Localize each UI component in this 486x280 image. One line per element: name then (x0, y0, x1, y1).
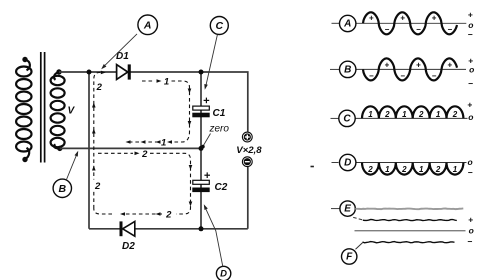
svg-text:−: − (432, 72, 437, 81)
small printed dash artifact (311, 166, 314, 168)
node label B (circled) with pointer arrow (53, 179, 71, 197)
svg-text:+: + (385, 60, 390, 69)
C2 plus polarity mark (204, 172, 210, 178)
wire C branch vertical (C1/C2 string) (200, 72, 202, 229)
svg-text:2: 2 (141, 149, 148, 160)
dashed current path loop 2 (charging C2 via D2) (94, 72, 101, 208)
svg-text:2: 2 (401, 165, 407, 174)
capacitor C2 (electrolytic) (192, 180, 209, 192)
svg-text:1: 1 (164, 77, 169, 88)
svg-text:−: − (468, 78, 473, 88)
svg-text:o: o (469, 64, 474, 74)
svg-text:1: 1 (402, 110, 407, 119)
waveform C: full-wave rectified humps (node C) numbered 1,2 (331, 117, 339, 119)
svg-text:1: 1 (161, 137, 166, 148)
diode D1 (117, 64, 131, 79)
svg-text:+: + (369, 13, 374, 22)
svg-text:C2: C2 (215, 182, 228, 193)
svg-text:2: 2 (452, 110, 458, 119)
svg-text:A: A (343, 19, 351, 30)
waveform D: negative rectified humps (node D) numbered 2,1 (332, 162, 339, 164)
wire bottom (D2 branch to output -) (89, 167, 248, 229)
svg-text:D: D (344, 158, 351, 169)
waveform E: smoothed DC output (top plate) with + level (331, 208, 340, 210)
svg-text:D: D (220, 269, 227, 280)
svg-text:C: C (216, 20, 224, 32)
svg-text:1: 1 (419, 165, 424, 174)
transformer primary winding (16, 60, 31, 160)
label zero with pointer (201, 124, 229, 149)
node D junction dot (C2 bottom) (199, 226, 204, 231)
svg-text:2: 2 (96, 82, 103, 93)
svg-text:1: 1 (385, 165, 390, 174)
svg-text:1: 1 (453, 165, 458, 174)
svg-text:zero: zero (209, 124, 230, 135)
dashed current path loop 1 (charging C1 via D1) (142, 80, 155, 82)
svg-text:F: F (346, 252, 353, 263)
waveform F: negative DC level with ripple (363, 242, 455, 243)
svg-text:V: V (68, 106, 76, 117)
svg-text:C1: C1 (213, 108, 226, 119)
svg-text:−: − (468, 168, 473, 178)
svg-text:+: + (468, 10, 473, 20)
svg-text:2: 2 (165, 210, 172, 221)
zero-node junction dot (C1-C2 midpoint) (199, 146, 204, 151)
svg-text:2: 2 (384, 110, 390, 119)
svg-text:o: o (469, 226, 474, 236)
svg-text:V×2,8: V×2,8 (236, 145, 262, 156)
svg-text:2: 2 (367, 165, 373, 174)
svg-text:2: 2 (94, 181, 101, 192)
svg-text:+: + (447, 60, 452, 69)
svg-text:−: − (468, 29, 473, 39)
svg-text:−: − (416, 25, 421, 34)
svg-text:+: + (432, 13, 437, 22)
svg-text:o: o (468, 112, 473, 122)
node label C (circled) with pointer arrow (210, 17, 228, 35)
svg-text:A: A (143, 19, 152, 31)
svg-text:1: 1 (436, 110, 441, 119)
waveform A: input sine at node A with +/- half-cycle labels (332, 22, 340, 24)
wire left (node A down to bottom wire) (88, 72, 90, 229)
node A junction dot (87, 70, 92, 75)
transformer core (41, 52, 45, 163)
wire middle (node B / zero to C1-C2 midpoint) (60, 147, 201, 149)
svg-text:+: + (416, 60, 421, 69)
svg-text:B: B (59, 183, 67, 195)
svg-text:B: B (344, 64, 351, 75)
svg-text:−: − (400, 72, 405, 81)
svg-text:1: 1 (368, 110, 373, 119)
node C junction dot (D1 cathode / C1 top) (199, 70, 204, 75)
svg-text:−: − (369, 72, 374, 81)
C1 plus polarity mark (204, 98, 210, 104)
svg-text:E: E (344, 204, 351, 215)
svg-text:C: C (343, 113, 351, 124)
output terminal + (positive) (242, 132, 252, 142)
svg-text:−: − (385, 25, 390, 34)
waveform B: inverted sine at node B with +/- labels (330, 68, 339, 70)
svg-text:−: − (468, 236, 473, 246)
output terminal - (negative) (242, 157, 252, 167)
wire top (node A to C1 top node to output +) (59, 72, 248, 132)
capacitor C1 (electrolytic) (192, 106, 209, 117)
transformer secondary winding (51, 72, 65, 148)
svg-text:2: 2 (435, 165, 441, 174)
diode D2 (120, 221, 135, 236)
node label D (circled) with pointer arrow (216, 266, 230, 280)
svg-text:+: + (467, 100, 472, 110)
svg-text:+: + (468, 214, 473, 224)
node label A (circled) with pointer arrow (138, 15, 158, 35)
svg-text:+: + (400, 13, 405, 22)
svg-text:−: − (447, 25, 452, 34)
svg-text:2: 2 (418, 110, 424, 119)
svg-text:o: o (467, 157, 472, 167)
svg-text:D2: D2 (122, 241, 135, 252)
